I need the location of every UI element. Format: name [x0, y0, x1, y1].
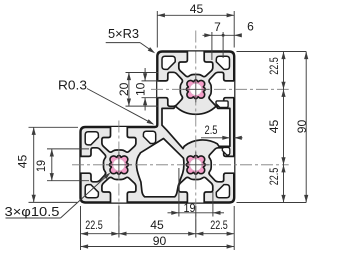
bottom-left core hole (tapping hole, highlighted) — [110, 155, 129, 174]
dimension 7 — [211, 32, 213, 60]
svg-text:7: 7 — [214, 20, 221, 34]
dimension 19 bottom — [178, 168, 180, 217]
dimension 90 right — [237, 202, 307, 204]
top core hole crosshair — [183, 88, 209, 90]
top core hole (tapping hole, highlighted) — [186, 80, 205, 99]
dimension 2.5 wall thickness — [201, 137, 230, 139]
corner cavity arm bottom-left — [85, 185, 98, 198]
corner cavity right wall between middle cavity and E slot — [222, 148, 230, 156]
svg-text:45: 45 — [150, 218, 164, 232]
dimension 45 right — [281, 89, 285, 97]
svg-text:45: 45 — [267, 119, 281, 133]
dimension 90 bottom — [81, 246, 235, 248]
svg-text:R0.3: R0.3 — [58, 79, 87, 93]
dimension 45 bottom — [195, 206, 197, 238]
dimension 45 left — [29, 126, 79, 128]
dimension 22.5 right top — [237, 51, 307, 53]
svg-text:22.5: 22.5 — [267, 168, 281, 186]
bottom-left cell N T-slot cavity — [102, 127, 136, 152]
bottom-left cell S T-slot cavity — [102, 177, 136, 202]
svg-text:90: 90 — [295, 119, 309, 133]
corner cavity top-left of top cell — [162, 56, 175, 69]
svg-text:45: 45 — [190, 2, 204, 16]
svg-text:22.5: 22.5 — [210, 218, 228, 232]
centerline vertical through top & bottom-right cores x=195.8 — [195, 31, 197, 239]
dimension 45 top — [156, 11, 158, 48]
lens cavity between bottom-left and bottom-right cores — [137, 139, 184, 197]
leader 3x phi 10.5 hole callout — [6, 217, 61, 219]
svg-text:2.5: 2.5 — [205, 123, 218, 137]
bottom-right cell E T-slot cavity — [209, 148, 234, 182]
dimension 19 left — [47, 148, 89, 150]
bottom-right core hole (tapping hole, highlighted) — [186, 155, 205, 174]
svg-text:45: 45 — [16, 154, 30, 168]
corner cavity bottom-right — [216, 185, 229, 198]
dimension 22.5 bottom right — [233, 206, 235, 250]
bottom-left cell W T-slot cavity — [81, 148, 106, 182]
svg-text:90: 90 — [153, 234, 167, 248]
leader R0.3 — [87, 89, 153, 124]
svg-text:20: 20 — [117, 82, 131, 96]
corner cavity right wall below top cell E slot — [216, 101, 228, 108]
centerline vertical through bottom-left core x=118.9 — [118, 121, 120, 239]
bottom-left core hole crosshair — [106, 164, 132, 166]
dimension 20 — [126, 72, 159, 74]
svg-text:22.5: 22.5 — [85, 218, 103, 232]
dimension 22.5 bottom left — [80, 206, 82, 250]
svg-text:6: 6 — [247, 20, 254, 34]
svg-text:5×R3: 5×R3 — [108, 27, 139, 41]
bottom-right cell S T-slot cavity — [179, 177, 213, 202]
centerline horizontal through bottom cores y=164.8 — [72, 164, 289, 166]
dimension 22.5 right bottom — [281, 165, 285, 173]
top cell N T-slot cavity — [179, 52, 213, 77]
svg-text:19: 19 — [184, 201, 196, 215]
top cell W T-slot cavity — [157, 72, 182, 106]
corner cavity top-right of top cell — [216, 56, 229, 69]
leader 5xR3 corner radius — [106, 42, 140, 44]
svg-text:3×φ10.5: 3×φ10.5 — [5, 205, 60, 219]
central cavity between top and bottom-right cores — [162, 106, 230, 149]
profile outer silhouette (L-shape 45x90) — [81, 52, 235, 203]
corner cavity inner corner block — [143, 131, 155, 143]
dimension 6 — [234, 33, 242, 37]
corner cavity arm top-left — [85, 132, 98, 145]
svg-text:19: 19 — [34, 160, 48, 172]
svg-text:22.5: 22.5 — [267, 57, 281, 75]
svg-text:10: 10 — [133, 82, 147, 96]
centerline horizontal through top core y=89.3 — [151, 88, 289, 90]
bottom-right core hole crosshair — [183, 164, 209, 166]
top cell E T-slot cavity — [209, 72, 234, 106]
dimension 10 — [142, 80, 160, 82]
